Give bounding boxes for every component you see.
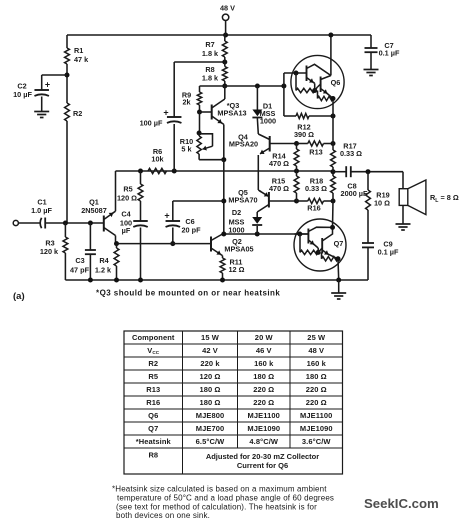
transistor Q4 MPSA20 [269, 136, 271, 152]
resistor R9 [199, 86, 201, 92]
transistor Q2 MPSA05 [210, 237, 212, 252]
node: R15 bottom / Q5 base junction [294, 199, 299, 204]
node: output node junction [331, 169, 336, 174]
node: R4 bottom [114, 278, 119, 283]
ground: below speaker [396, 223, 411, 225]
svg-text:MPSA70: MPSA70 [228, 196, 257, 205]
svg-text:220 Ω: 220 Ω [306, 385, 327, 394]
node: C3 bottom [88, 278, 93, 283]
svg-text:46 V: 46 V [256, 346, 272, 355]
svg-text:120 Ω: 120 Ω [117, 194, 137, 203]
svg-text:MJE1100: MJE1100 [300, 411, 332, 420]
capacitor C2 [34, 89, 49, 91]
node: Q6 collector junction on top rail [328, 33, 333, 38]
svg-text:160 k: 160 k [307, 359, 327, 368]
svg-text:R4: R4 [99, 256, 109, 265]
svg-text:20 W: 20 W [255, 333, 274, 342]
resistor R17 [332, 144, 334, 151]
Q2 collector (up) [211, 234, 223, 241]
wire: C9 down to ground row [367, 247, 369, 280]
svg-text:2000 µF: 2000 µF [341, 189, 368, 198]
svg-text:Adjusted for 20-30 mZ Collecto: Adjusted for 20-30 mZ Collector [206, 452, 319, 461]
svg-text:R8: R8 [148, 451, 158, 460]
svg-text:180 Ω: 180 Ω [306, 372, 327, 381]
svg-text:R16: R16 [307, 204, 320, 213]
potentiometer R10 5k [197, 136, 201, 154]
node: R13/R17 junction [331, 141, 336, 146]
svg-text:MPSA05: MPSA05 [224, 245, 253, 254]
wire: C1 to Q1 base [45, 222, 103, 224]
node: C6 bottom junction [170, 241, 175, 246]
svg-text:48 V: 48 V [220, 4, 235, 13]
Q4 base wire [270, 143, 297, 145]
node: Q7 internal junction [316, 250, 321, 255]
resistor R11 [222, 256, 224, 258]
wire: C6 top branch [173, 200, 224, 202]
capacitor C5 100uF [167, 116, 182, 118]
node: C3 junction [88, 221, 93, 226]
resistor R12 row [283, 86, 285, 116]
R10 wiper loop [199, 134, 212, 146]
Q6 internal transistor 2 [320, 77, 322, 93]
svg-text:1000: 1000 [260, 117, 276, 126]
transistor Q6 circle (Darlington MJE1100) [291, 55, 344, 108]
node: main ground junction [336, 278, 341, 283]
svg-text:*Q3 should be mounted on or ne: *Q3 should be mounted on or near heatsin… [96, 289, 280, 298]
wire: R2 down to input node [66, 121, 68, 223]
svg-text:15 W: 15 W [201, 333, 220, 342]
terminal: 48 V input [222, 14, 228, 20]
node: D1 top junction [255, 84, 260, 89]
svg-text:(a): (a) [13, 291, 25, 302]
node: Q7 internal base tap [297, 232, 302, 237]
node: R10 bottom / Q3 emitter junction [221, 157, 226, 162]
node: R14/R15 feedback junction [294, 169, 299, 174]
node: R1/R2/C2 junction [65, 73, 70, 78]
node: R19 top junction [366, 169, 371, 174]
svg-text:2N5087: 2N5087 [81, 206, 107, 215]
node: R10 top junction [197, 131, 202, 136]
resistor R19 [367, 172, 369, 190]
Q7 internal resistor A [299, 234, 301, 252]
ground: below C2 [34, 111, 49, 113]
svg-text:47 pF: 47 pF [70, 266, 90, 275]
svg-text:R13: R13 [146, 385, 160, 394]
svg-text:1.0 µF: 1.0 µF [31, 206, 52, 215]
wire: speaker to ground [402, 205, 404, 224]
Q1 emitter arrow (up) [104, 213, 114, 220]
wire: riser to R7/R8 node [174, 61, 225, 63]
node: Q7 emitter junction [336, 256, 341, 261]
svg-text:2k: 2k [182, 98, 191, 107]
wire: to speaker [402, 172, 404, 189]
svg-text:µF: µF [122, 226, 131, 235]
svg-text:0.33 Ω: 0.33 Ω [305, 184, 327, 193]
wire: rail down to Q7 [332, 201, 335, 227]
node: 48V supply tap junction [223, 33, 228, 38]
node: R14 top / Q4 base junction [294, 141, 299, 146]
Q2 emitter arrow (down) [211, 248, 221, 255]
svg-text:MJE1090: MJE1090 [300, 424, 333, 433]
svg-text:180 Ω: 180 Ω [199, 398, 220, 407]
wire: 100uF branch riser [173, 124, 175, 171]
svg-text:C4: C4 [121, 210, 131, 219]
svg-text:R2: R2 [148, 359, 158, 368]
svg-text:120 Ω: 120 Ω [199, 372, 220, 381]
node: Q3 emitter feed junction [221, 232, 226, 237]
wire: R19 to C9 [367, 210, 369, 243]
Q6 base wire [283, 73, 285, 86]
svg-text:220 Ω: 220 Ω [253, 398, 274, 407]
resistor R4 [116, 244, 118, 248]
Q6 internal resistor B [317, 91, 319, 99]
svg-text:R2: R2 [73, 109, 82, 118]
svg-text:1.2 k: 1.2 k [95, 266, 112, 275]
Q5 emitter arrow (from top-left into base) [258, 190, 261, 192]
svg-text:Current for Q6: Current for Q6 [237, 461, 288, 470]
svg-text:47 k: 47 k [74, 55, 89, 64]
svg-text:R1: R1 [74, 46, 83, 55]
svg-text:+: + [164, 211, 169, 221]
node: R5 top [138, 169, 143, 174]
svg-text:3.6°C/W: 3.6°C/W [302, 437, 332, 446]
Q6 internal transistor 1 [306, 66, 308, 82]
svg-text:Q6: Q6 [331, 78, 341, 87]
svg-text:25 W: 25 W [307, 333, 326, 342]
wire: left rail down from top rail [66, 35, 68, 48]
svg-text:0.33 Ω: 0.33 Ω [340, 149, 362, 158]
svg-text:+: + [163, 108, 168, 118]
node: Q3 base junction [197, 110, 202, 115]
node: Q1 emitter/R4 junction [114, 241, 119, 246]
wire: Q3 emitter rail down to Q2 collector row [223, 160, 225, 234]
node: Q6 emitter junction [331, 96, 336, 101]
table: component value table [124, 331, 343, 474]
wire: Q4 emitter to Q5 emitter [257, 155, 259, 190]
svg-text:12 Ω: 12 Ω [229, 265, 245, 274]
svg-text:180 Ω: 180 Ω [199, 385, 220, 394]
svg-text:42 V: 42 V [202, 346, 218, 355]
resistor R7 [222, 41, 227, 57]
svg-text:R5: R5 [123, 185, 132, 194]
svg-text:RL = 8 Ω: RL = 8 Ω [430, 193, 459, 204]
speaker RL [399, 189, 408, 206]
Q7 internal resistor B [321, 252, 323, 258]
capacitor C8 [345, 166, 347, 177]
Q7 base wire [295, 233, 309, 235]
svg-text:MPSA20: MPSA20 [229, 140, 258, 149]
resistor R8 [222, 67, 227, 82]
resistor R6 [148, 168, 167, 173]
svg-text:0.1 µF: 0.1 µF [379, 49, 400, 58]
svg-text:160 k: 160 k [254, 359, 274, 368]
Q4 collector (up-left) [258, 134, 269, 140]
wire: R1 to node [66, 64, 68, 103]
capacitor C6 [166, 220, 181, 222]
resistor R2 [65, 103, 70, 121]
svg-text:1000: 1000 [228, 226, 244, 235]
resistor R18 [331, 176, 336, 193]
Q7 internal transistor 1 [307, 229, 309, 244]
diode D1 MSS1000 [256, 86, 258, 110]
capacitor C3 [89, 223, 91, 250]
node: R12/Q6 emitter junction [331, 114, 336, 119]
resistor R5 [140, 171, 142, 184]
svg-text:C3: C3 [75, 256, 84, 265]
svg-text:MJE700: MJE700 [196, 424, 225, 433]
Q3 collector (up) [212, 99, 225, 108]
wire: Q7 emitter down to ground row [337, 259, 340, 280]
wire: to C2 [42, 74, 67, 76]
node: Q7 collector top junction [330, 225, 335, 230]
svg-text:*Heatsink: *Heatsink [136, 437, 172, 446]
svg-text:5 k: 5 k [181, 145, 192, 154]
resistor R13 row [297, 143, 308, 145]
node: R8/Q3 collector junction [222, 84, 227, 89]
svg-text:MJE1090: MJE1090 [247, 424, 280, 433]
svg-text:10 Ω: 10 Ω [374, 199, 390, 208]
ground: below C7 [364, 69, 379, 71]
diode D2 MSS1000 [256, 212, 258, 217]
node: Q6 internal base tap [294, 71, 299, 76]
svg-text:10k: 10k [151, 155, 164, 164]
Q6 collector wire from supply rail [330, 35, 332, 76]
svg-text:4.8°C/W: 4.8°C/W [249, 437, 279, 446]
svg-text:120 k: 120 k [40, 247, 59, 256]
svg-text:*Heatsink size calculated is b: *Heatsink size calculated is based on a … [112, 485, 327, 494]
terminal: audio input [13, 220, 18, 225]
wire: driver row Q2 collector to Q7 base [223, 233, 309, 235]
node: C4 bottom [138, 278, 143, 283]
transistor Q5 MPSA70 [268, 192, 270, 208]
svg-text:10 µF: 10 µF [13, 90, 32, 99]
svg-text:VCC: VCC [147, 346, 160, 355]
wire: ground stub [338, 280, 340, 293]
Q3 emitter arrow (down) [212, 116, 222, 123]
svg-text:MPSA13: MPSA13 [217, 109, 246, 118]
wire: input to C1 [18, 222, 40, 224]
svg-text:both devices on one sink.: both devices on one sink. [116, 511, 210, 520]
wire: Q1 collector to Q2 base [117, 243, 212, 245]
wire: Q6 emitter rail [332, 99, 334, 144]
svg-text:220 Ω: 220 Ω [306, 398, 327, 407]
capacitor C1 [40, 218, 41, 228]
Q1 collector (down) [104, 228, 116, 236]
svg-text:SeekIC.com: SeekIC.com [364, 496, 439, 511]
node: R11 bottom [220, 278, 225, 283]
svg-text:100 µF: 100 µF [140, 119, 163, 128]
svg-text:20 pF: 20 pF [181, 226, 201, 235]
resistor R16 row [297, 200, 308, 202]
wire: feedback rail from Q1 to output network [116, 170, 334, 172]
svg-text:48 V: 48 V [308, 346, 324, 355]
transistor Q7 circle (Darlington MJE1090) [294, 219, 346, 271]
transistor Q1 2N5087 [103, 216, 105, 232]
transistor Q3 MPSA13 [211, 105, 213, 120]
svg-text:MJE1100: MJE1100 [248, 411, 280, 420]
capacitor C7 [370, 35, 372, 48]
svg-text:1.8 k: 1.8 k [202, 49, 219, 58]
resistor R15 [294, 176, 299, 193]
wire: R10 branch from Q3 base [199, 112, 201, 133]
svg-text:R13: R13 [309, 148, 322, 157]
wire: bottom ground row [65, 279, 368, 281]
wire: C2 to ground [41, 97, 43, 112]
svg-text:Q7: Q7 [334, 239, 344, 248]
wire: top supply rail [67, 34, 371, 36]
node: Q6 internal emitter junction [312, 88, 317, 93]
Q4 emitter arrow (down-left) [260, 148, 270, 154]
svg-text:D2: D2 [232, 208, 241, 217]
svg-text:Q7: Q7 [148, 424, 158, 433]
node: D2 bottom junction [255, 232, 260, 237]
resistor R14 [294, 149, 299, 166]
node: R6/100uF junction [172, 169, 177, 174]
Q6 internal resistor A [295, 73, 297, 91]
node: R3 junction [63, 221, 68, 226]
resistor R3 [64, 223, 66, 237]
svg-text:Component: Component [132, 333, 175, 342]
svg-text:220 Ω: 220 Ω [253, 385, 274, 394]
svg-text:R16: R16 [146, 398, 160, 407]
svg-text:470 Ω: 470 Ω [269, 159, 289, 168]
wire: D1 to Q4 collector [256, 119, 259, 134]
Q5 base wire [269, 200, 297, 202]
svg-text:temperature of 50°C and a load: temperature of 50°C and a load phase ang… [117, 494, 334, 503]
svg-text:6.5°C/W: 6.5°C/W [196, 437, 226, 446]
resistor R1 [65, 48, 70, 64]
svg-text:1.8 k: 1.8 k [202, 74, 219, 83]
node: Q6 base/R12 junction [281, 84, 286, 89]
capacitor C4 [140, 201, 142, 221]
svg-text:470 Ω: 470 Ω [269, 184, 289, 193]
node: R18/R16 junction [331, 199, 336, 204]
Q7 internal transistor 2 [321, 238, 323, 254]
Q5 collector (down-left) [257, 205, 269, 213]
svg-text:R5: R5 [148, 372, 158, 381]
wire: bias row to R9 and Q6 base [200, 85, 284, 87]
capacitor C9 [362, 242, 374, 244]
svg-text:180 Ω: 180 Ω [253, 372, 274, 381]
node: R7/R8 junction [222, 60, 227, 65]
ground: main [331, 292, 346, 294]
R10 wiper arrow [203, 146, 213, 149]
svg-text:+: + [45, 80, 50, 90]
node: C6 tap junction [221, 199, 226, 204]
svg-text:MJE800: MJE800 [196, 411, 225, 420]
wire: output line with C8 [333, 171, 346, 173]
svg-text:220 k: 220 k [200, 359, 220, 368]
svg-text:R7: R7 [205, 40, 214, 49]
wire: R7 rail from top [224, 35, 226, 41]
svg-text:390 Ω: 390 Ω [294, 130, 314, 139]
svg-text:Q6: Q6 [148, 411, 158, 420]
svg-text:0.1 µF: 0.1 µF [378, 248, 399, 257]
